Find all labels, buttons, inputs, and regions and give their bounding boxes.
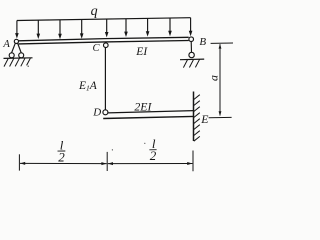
svg-text:2EI: 2EI xyxy=(134,99,152,113)
svg-text:D: D xyxy=(92,106,101,118)
svg-text:B: B xyxy=(199,36,206,48)
svg-text:E: E xyxy=(200,112,209,126)
svg-text:EI: EI xyxy=(135,46,148,58)
svg-text:C: C xyxy=(93,43,101,54)
svg-text:2: 2 xyxy=(58,149,65,164)
svg-text:E1A: E1A xyxy=(78,80,98,93)
svg-text:q: q xyxy=(91,4,98,19)
svg-text:A: A xyxy=(2,39,10,50)
svg-text:a: a xyxy=(207,75,221,81)
svg-text:2: 2 xyxy=(150,148,157,163)
